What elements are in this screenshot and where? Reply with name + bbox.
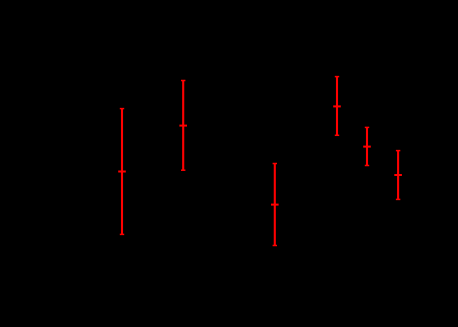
error bar point 1 [118,109,126,235]
error bar point 3 [271,164,279,246]
error bar point 2 [179,81,187,171]
error bar point 5 [363,127,371,165]
error bar point 6 [394,151,402,200]
error bar point 4 [333,77,341,136]
